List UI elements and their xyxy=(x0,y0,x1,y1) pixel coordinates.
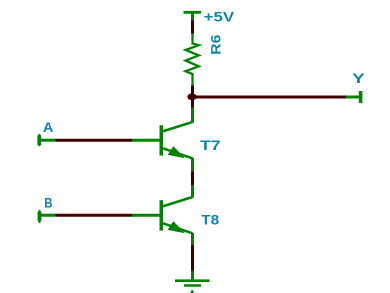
svg-text:A: A xyxy=(43,119,54,135)
svg-text:Y: Y xyxy=(352,70,365,86)
wire R6 to node xyxy=(191,86,194,101)
wire node to Y xyxy=(192,96,346,99)
resistor R6 xyxy=(186,34,199,86)
svg-text:T8: T8 xyxy=(201,211,219,227)
wire node to T7 collector xyxy=(191,100,194,108)
transistor T8 xyxy=(132,185,193,245)
terminal B bar xyxy=(38,212,42,222)
terminal A pin xyxy=(41,139,56,142)
wire B to T8 base xyxy=(56,214,133,217)
node junction dot xyxy=(187,93,196,100)
transistor T7 xyxy=(132,108,193,172)
wire supply to R6 xyxy=(191,21,194,34)
terminal Y bar xyxy=(359,91,363,103)
svg-text:B: B xyxy=(44,194,52,210)
terminal A bar xyxy=(37,135,41,145)
ground xyxy=(175,271,210,293)
terminal Y pin xyxy=(346,96,359,99)
wire T8 emitter to ground xyxy=(191,245,194,271)
svg-text:R6: R6 xyxy=(207,34,223,54)
wire A to T7 base xyxy=(56,139,133,142)
power +5V symbol xyxy=(184,12,202,21)
svg-text:T7: T7 xyxy=(200,137,221,153)
terminal B pin xyxy=(41,214,56,217)
svg-text:+5V: +5V xyxy=(204,8,235,24)
wire T7 emitter to T8 collector xyxy=(191,172,194,186)
